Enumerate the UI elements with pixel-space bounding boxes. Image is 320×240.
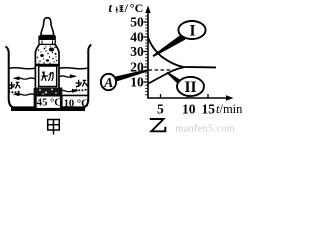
- bottle collar ring: [39, 36, 55, 44]
- svg-text:10: 10: [130, 75, 144, 90]
- svg-text:II: II: [184, 79, 196, 96]
- svg-text:40: 40: [130, 30, 144, 45]
- yi caption (second): [150, 119, 166, 131]
- svg-text:15: 15: [202, 102, 216, 117]
- jia caption (first): [48, 120, 60, 135]
- curve I cooling: [148, 36, 216, 67]
- svg-text:50: 50: [130, 15, 144, 30]
- water bath container outline: [6, 45, 92, 109]
- container thick bottom: [11, 106, 85, 111]
- x axis ticks: [161, 94, 209, 98]
- svg-text:30: 30: [130, 44, 144, 59]
- svg-text:t/min: t/min: [216, 102, 243, 116]
- svg-text:/: /: [124, 1, 129, 15]
- callout tail I: [153, 35, 186, 58]
- y axis minor ticks: [145, 16, 148, 95]
- graph y-axis: [147, 9, 149, 99]
- y axis major ticks: [144, 22, 149, 82]
- svg-text:10 °C: 10 °C: [64, 98, 89, 109]
- milk character (nai) in label: [41, 71, 53, 81]
- 45 degree label box: [36, 96, 61, 109]
- callout tail A: [113, 69, 147, 81]
- svg-text:45 °C: 45 °C: [37, 98, 62, 109]
- water surface line left: [10, 68, 36, 69]
- curve II warming: [148, 67, 184, 84]
- dashed equilibrium line: [149, 69, 179, 71]
- bottle body outline: [35, 44, 39, 96]
- heat arrow lower-right: [59, 90, 76, 91]
- svg-text:manfen5.com: manfen5.com: [176, 124, 236, 135]
- y axis labels: [130, 15, 144, 90]
- 10 degree label area: [62, 94, 89, 96]
- heat character left: [9, 82, 20, 89]
- svg-text:A: A: [103, 75, 113, 90]
- dark smudge left of 45 box: [34, 88, 37, 109]
- graph x-axis: [147, 97, 230, 99]
- x axis labels: [157, 102, 215, 117]
- callout oval II: [177, 77, 204, 96]
- svg-text:I: I: [189, 23, 195, 40]
- milk label box: [39, 66, 57, 87]
- label box top dark band: [36, 64, 59, 67]
- heat character right: [76, 80, 87, 87]
- heat arrow lower-left: [18, 94, 35, 95]
- heat arrow upper-left: [18, 78, 35, 79]
- milk speckle texture upper body: [37, 46, 58, 64]
- dark speckle band below label: [36, 88, 58, 96]
- bottle teat: [41, 18, 54, 36]
- dark smudge right of 45 box: [58, 88, 62, 110]
- callout oval I: [178, 21, 205, 39]
- svg-text:°C: °C: [130, 1, 143, 15]
- callout tail II: [167, 72, 180, 83]
- heat arrow upper-right: [59, 76, 76, 77]
- callout oval A: [101, 74, 116, 90]
- svg-text:t: t: [109, 1, 113, 15]
- water surface line right: [59, 68, 88, 69]
- svg-text:5: 5: [157, 102, 164, 117]
- svg-text:10: 10: [182, 102, 196, 117]
